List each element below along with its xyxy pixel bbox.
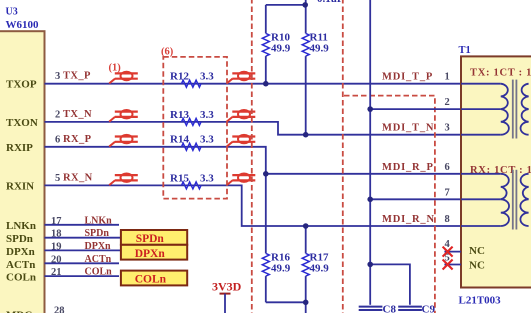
svg-text:MDI_R_P: MDI_R_P xyxy=(382,162,434,173)
wire TXON row xyxy=(45,122,462,135)
ferrite bead markup row4 col1 xyxy=(109,174,138,186)
svg-text:TXOP: TXOP xyxy=(6,79,37,91)
wire to C8 C9 xyxy=(369,264,371,304)
svg-text:49.9: 49.9 xyxy=(310,42,330,54)
wire TXOP / MDI_T_P row xyxy=(45,83,462,85)
junction R10/TXOP xyxy=(263,81,269,87)
wire to T1 pin 7 xyxy=(370,198,461,200)
NC stub pin 4 xyxy=(444,251,461,253)
svg-text:R15: R15 xyxy=(170,172,189,184)
svg-text:49.9: 49.9 xyxy=(310,263,330,275)
T1 TX core xyxy=(512,80,514,139)
svg-text:0.1uF: 0.1uF xyxy=(317,0,344,5)
NC stub pin 5 xyxy=(444,264,461,266)
ferrite bead markup row3 col2 xyxy=(227,135,256,147)
dashed box MDI corner xyxy=(344,96,435,313)
ferrite bead markup row2 col1 xyxy=(109,110,138,122)
ferrite bead markup row4 col2 xyxy=(227,174,256,186)
wire R10-R11 top tie xyxy=(266,0,306,5)
svg-text:COLn: COLn xyxy=(135,274,167,286)
wire SPDn xyxy=(45,237,121,239)
junction CT pin7 xyxy=(367,197,373,203)
svg-text:3.3: 3.3 xyxy=(200,109,214,121)
svg-text:TX_N: TX_N xyxy=(63,109,92,120)
svg-text:DPXn: DPXn xyxy=(135,248,166,260)
svg-text:2: 2 xyxy=(55,109,60,120)
svg-text:5: 5 xyxy=(55,173,60,184)
svg-text:T1: T1 xyxy=(459,45,471,56)
svg-text:49.9: 49.9 xyxy=(271,42,291,54)
svg-text:NC: NC xyxy=(469,259,485,271)
svg-text:DPXn: DPXn xyxy=(6,246,35,258)
resistor R16 xyxy=(265,174,267,254)
ferrite bead markup row1 col2 xyxy=(227,72,256,84)
svg-text:SPDn: SPDn xyxy=(6,233,33,245)
port SPDn xyxy=(121,230,187,245)
svg-text:3V3D: 3V3D xyxy=(212,279,242,293)
svg-text:28: 28 xyxy=(54,306,65,313)
junction bottom tie xyxy=(303,300,309,306)
svg-text:8: 8 xyxy=(445,214,450,225)
svg-text:LNKn: LNKn xyxy=(85,215,113,226)
T1 RX winding leads xyxy=(461,173,501,175)
resistor R10 xyxy=(265,5,267,34)
svg-text:(1): (1) xyxy=(109,62,122,73)
svg-text:TX: 1CT : 1: TX: 1CT : 1 xyxy=(470,68,531,79)
svg-text:6: 6 xyxy=(445,162,450,173)
wire RXIN row xyxy=(45,185,462,226)
svg-text:SPDn: SPDn xyxy=(136,233,165,245)
dashed line left of big box xyxy=(251,0,253,313)
junction R11/MDI_T_N xyxy=(303,132,309,138)
svg-text:L21T003: L21T003 xyxy=(459,295,502,307)
svg-text:7: 7 xyxy=(445,187,450,198)
svg-text:49.9: 49.9 xyxy=(271,263,291,275)
svg-text:MDI_T_P: MDI_T_P xyxy=(382,72,433,83)
junction CT bottom corner xyxy=(367,262,373,268)
wire center-tap vertical xyxy=(369,0,371,264)
port COLn xyxy=(121,271,187,286)
ferrite bead markup row3 col1 xyxy=(109,135,138,147)
junction CT pin2 xyxy=(367,106,373,112)
capacitor C9 xyxy=(398,306,422,308)
svg-text:3: 3 xyxy=(445,123,450,134)
ferrite bead markup row1 col1 xyxy=(109,72,138,84)
ferrite bead markup row2 col2 xyxy=(227,110,256,122)
T1 TX secondary winding xyxy=(521,84,529,135)
junction top tie xyxy=(302,2,308,8)
transformer T1 body xyxy=(461,56,531,287)
no-connect X pin 5 xyxy=(443,260,453,270)
svg-text:1: 1 xyxy=(445,72,450,83)
svg-text:U3: U3 xyxy=(6,7,18,18)
svg-text:R14: R14 xyxy=(170,134,189,146)
wire to T1 pin 2 xyxy=(370,108,461,110)
no-connect X pin 4 xyxy=(443,247,453,257)
svg-text:ACTn: ACTn xyxy=(85,254,112,265)
wire RXIP row xyxy=(45,147,462,174)
capacitor C8 xyxy=(359,306,383,308)
svg-text:2: 2 xyxy=(445,97,450,108)
dashed box around R12-R15 xyxy=(163,57,227,199)
svg-text:LNKn: LNKn xyxy=(6,220,36,232)
svg-text:RX_P: RX_P xyxy=(63,134,92,145)
svg-text:ACTn: ACTn xyxy=(6,259,35,271)
svg-text:3.3: 3.3 xyxy=(200,71,214,83)
T1 TX winding leads xyxy=(461,83,501,85)
svg-text:COLn: COLn xyxy=(6,272,36,284)
wire R16-R17 bottom tie xyxy=(266,302,306,313)
wire DPXn xyxy=(45,249,121,251)
svg-text:3: 3 xyxy=(55,71,60,82)
svg-text:TXON: TXON xyxy=(6,117,38,129)
junction R16/MDI_R_P xyxy=(263,171,269,177)
svg-text:MDI_R_N: MDI_R_N xyxy=(382,214,435,225)
wire ACTn xyxy=(45,262,120,264)
port DPXn xyxy=(121,245,187,260)
svg-text:3.3: 3.3 xyxy=(200,172,214,184)
svg-text:W6100: W6100 xyxy=(6,19,40,31)
resistor R17 xyxy=(305,226,307,253)
wire LNKn xyxy=(45,224,120,226)
svg-text:RX_N: RX_N xyxy=(63,172,93,183)
IC U3 W6100 body xyxy=(0,31,45,313)
svg-text:SPDn: SPDn xyxy=(85,228,110,239)
wire COLn xyxy=(45,275,120,277)
svg-text:R13: R13 xyxy=(170,109,189,121)
junction R17/MDI_R_N xyxy=(303,223,309,229)
svg-text:MDC: MDC xyxy=(6,310,32,313)
T1 RX core xyxy=(512,170,514,230)
svg-text:RXIN: RXIN xyxy=(6,180,34,192)
resistor R11 xyxy=(305,5,307,34)
svg-text:6: 6 xyxy=(55,134,60,145)
svg-text:C8: C8 xyxy=(383,303,397,313)
svg-text:R12: R12 xyxy=(170,71,189,83)
T1 RX secondary winding xyxy=(520,174,528,226)
svg-text:(6): (6) xyxy=(161,47,174,58)
svg-text:DPXn: DPXn xyxy=(85,241,112,252)
dashed line right of big box xyxy=(342,0,344,313)
T1 RX primary winding xyxy=(501,174,509,226)
svg-text:C9: C9 xyxy=(422,303,436,313)
svg-text:NC: NC xyxy=(469,245,485,257)
svg-text:MDI_T_N: MDI_T_N xyxy=(382,123,434,134)
svg-text:RXIP: RXIP xyxy=(6,142,33,154)
svg-text:COLn: COLn xyxy=(85,267,113,278)
T1 TX primary winding xyxy=(501,84,509,135)
svg-text:TX_P: TX_P xyxy=(63,71,91,82)
svg-text:3.3: 3.3 xyxy=(200,134,214,146)
